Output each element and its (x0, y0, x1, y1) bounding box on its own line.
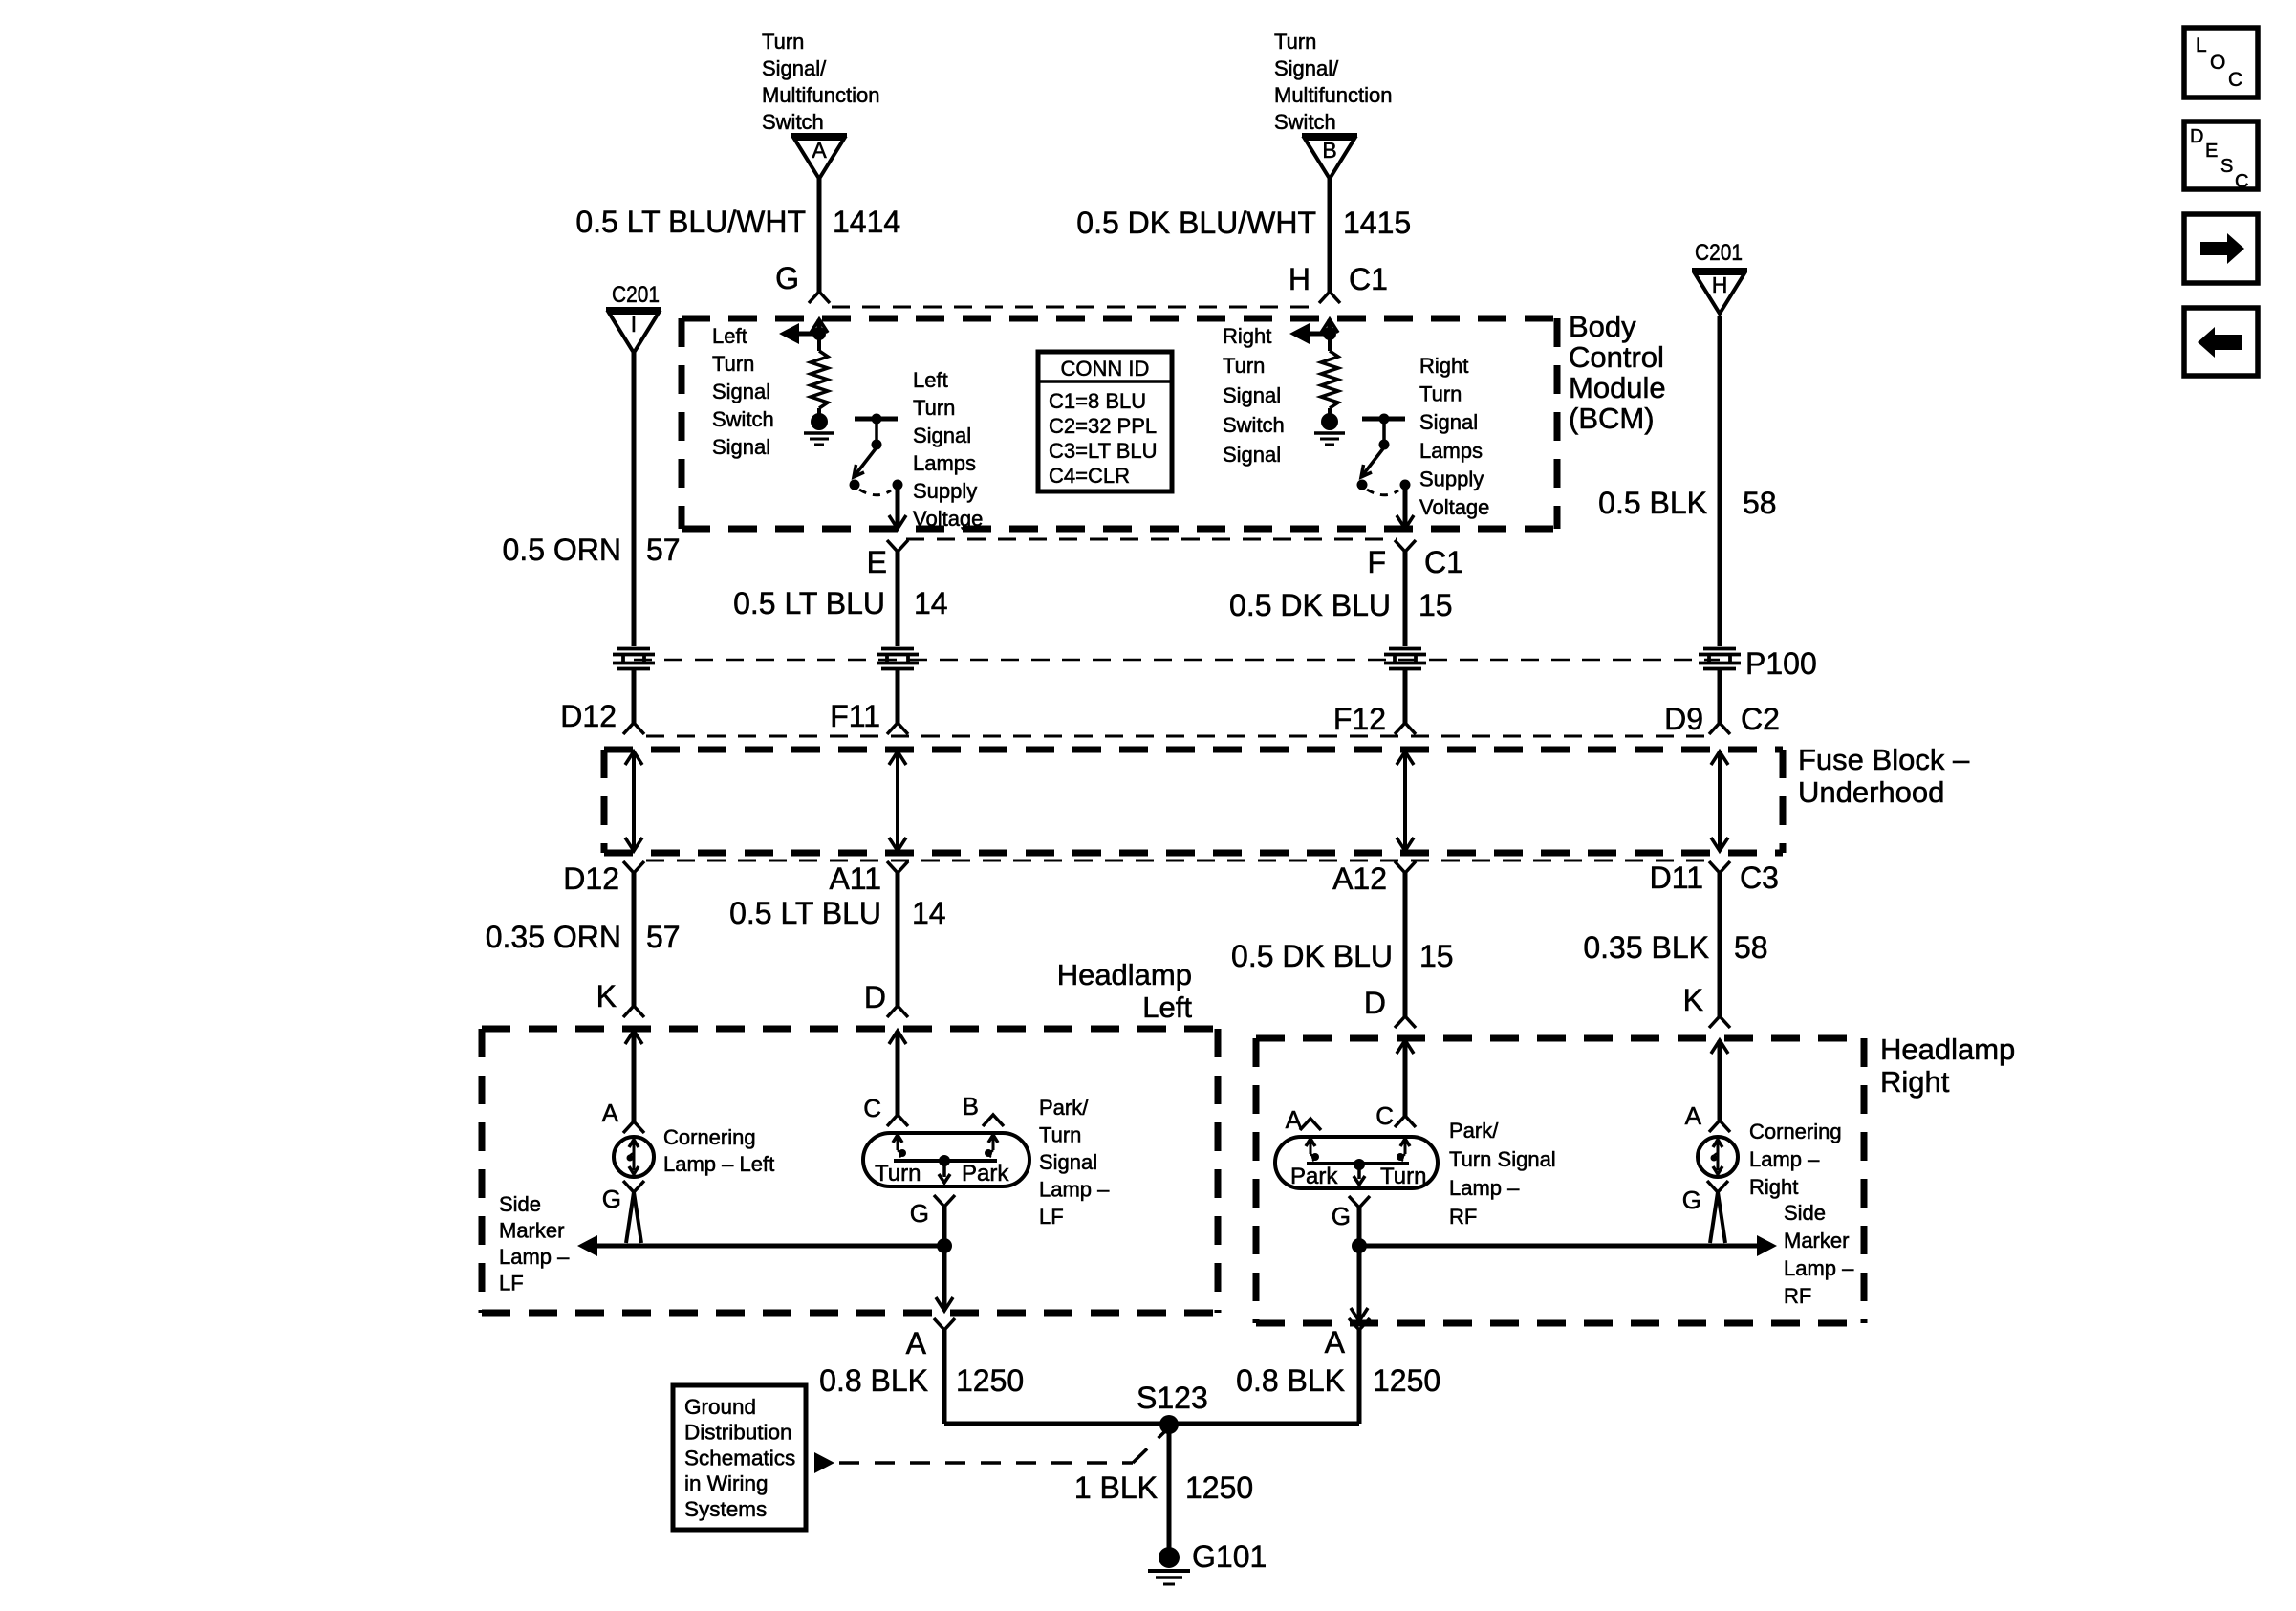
svg-text:Right: Right (1223, 324, 1271, 348)
svg-text:G: G (602, 1185, 621, 1213)
svg-text:F: F (1367, 545, 1386, 579)
svg-text:C201: C201 (1695, 240, 1743, 266)
svg-text:F12: F12 (1333, 702, 1386, 736)
svg-text:Side: Side (499, 1192, 541, 1216)
svg-text:58: 58 (1734, 930, 1768, 965)
svg-text:14: 14 (912, 896, 946, 930)
svg-text:0.5 DK BLU: 0.5 DK BLU (1229, 588, 1391, 622)
svg-text:Park/: Park/ (1449, 1119, 1499, 1143)
svg-text:0.8 BLK: 0.8 BLK (819, 1363, 928, 1398)
svg-text:Left: Left (913, 368, 948, 392)
svg-text:Lamps: Lamps (913, 451, 976, 475)
svg-text:G: G (910, 1199, 929, 1228)
svg-text:0.5 BLK: 0.5 BLK (1598, 486, 1707, 520)
svg-text:0.5 ORN: 0.5 ORN (503, 533, 621, 567)
svg-text:Right: Right (1419, 354, 1468, 378)
svg-text:0.5 LT BLU/WHT: 0.5 LT BLU/WHT (575, 205, 806, 239)
svg-text:Turn Signal: Turn Signal (1449, 1147, 1556, 1171)
svg-text:Left: Left (712, 324, 747, 348)
svg-text:LF: LF (1039, 1205, 1064, 1229)
svg-text:D: D (864, 980, 886, 1014)
svg-text:A: A (812, 138, 827, 163)
svg-text:Turn: Turn (875, 1161, 921, 1186)
svg-text:Turn: Turn (712, 352, 754, 376)
svg-text:15: 15 (1419, 939, 1454, 973)
svg-text:1250: 1250 (956, 1363, 1024, 1398)
svg-text:Systems: Systems (684, 1497, 767, 1521)
svg-text:Module: Module (1569, 371, 1666, 404)
svg-text:Switch: Switch (1274, 110, 1336, 134)
svg-text:Left: Left (1142, 991, 1192, 1024)
svg-text:G: G (1682, 1186, 1701, 1214)
svg-text:Schematics: Schematics (684, 1446, 795, 1469)
svg-text:Distribution: Distribution (684, 1421, 792, 1445)
svg-text:0.5 DK BLU: 0.5 DK BLU (1231, 939, 1393, 973)
svg-text:C4=CLR: C4=CLR (1049, 464, 1130, 488)
svg-text:58: 58 (1743, 486, 1777, 520)
svg-text:Headlamp: Headlamp (1880, 1033, 2015, 1066)
svg-text:0.5 LT BLU: 0.5 LT BLU (729, 896, 881, 930)
svg-text:0.35 ORN: 0.35 ORN (486, 920, 621, 954)
svg-text:15: 15 (1419, 588, 1453, 622)
svg-text:14: 14 (914, 586, 948, 620)
svg-text:C1: C1 (1349, 262, 1388, 296)
svg-text:C: C (863, 1094, 881, 1122)
svg-text:Fuse Block –: Fuse Block – (1798, 743, 1970, 776)
svg-text:S: S (2220, 156, 2233, 177)
svg-text:in Wiring: in Wiring (684, 1471, 769, 1495)
svg-text:Turn: Turn (1419, 382, 1462, 406)
svg-text:B: B (1322, 138, 1336, 163)
svg-text:A: A (1325, 1325, 1346, 1360)
svg-text:0.5 DK BLU/WHT: 0.5 DK BLU/WHT (1076, 206, 1316, 240)
svg-text:Right: Right (1880, 1065, 1950, 1099)
svg-text:C3: C3 (1740, 860, 1779, 895)
svg-text:Signal: Signal (1223, 443, 1281, 467)
svg-text:Switch: Switch (1223, 413, 1285, 437)
svg-text:O: O (2210, 52, 2225, 74)
svg-text:1250: 1250 (1185, 1470, 1253, 1505)
svg-text:0.35 BLK: 0.35 BLK (1583, 930, 1709, 965)
svg-text:Supply: Supply (1419, 467, 1484, 490)
svg-text:Signal: Signal (1419, 410, 1478, 434)
svg-text:D: D (2190, 126, 2203, 147)
svg-text:LF: LF (499, 1272, 524, 1295)
svg-text:P100: P100 (1745, 646, 1817, 681)
svg-text:D9: D9 (1664, 702, 1703, 736)
svg-text:Lamps: Lamps (1419, 439, 1483, 463)
svg-text:Marker: Marker (499, 1219, 564, 1243)
svg-text:C: C (2235, 171, 2248, 192)
svg-text:Signal: Signal (1223, 383, 1281, 407)
svg-text:Body: Body (1569, 310, 1636, 343)
svg-text:RF: RF (1784, 1284, 1811, 1308)
svg-text:C2: C2 (1741, 702, 1780, 736)
svg-text:Cornering: Cornering (663, 1125, 756, 1149)
svg-text:A: A (1685, 1101, 1702, 1130)
svg-text:D11: D11 (1650, 860, 1703, 895)
svg-text:K: K (1683, 983, 1703, 1017)
svg-text:1415: 1415 (1343, 206, 1411, 240)
svg-text:K: K (596, 979, 617, 1013)
svg-text:Park/: Park/ (1039, 1096, 1089, 1120)
svg-text:D12: D12 (563, 861, 619, 896)
svg-text:Side: Side (1784, 1201, 1826, 1225)
svg-text:Turn: Turn (1274, 30, 1316, 54)
svg-text:Park: Park (962, 1161, 1009, 1186)
svg-text:Switch: Switch (712, 407, 774, 431)
svg-text:G101: G101 (1192, 1539, 1267, 1574)
svg-text:Multifunction: Multifunction (762, 83, 880, 107)
svg-text:Turn: Turn (1223, 354, 1265, 378)
svg-text:1250: 1250 (1373, 1363, 1440, 1398)
svg-text:Multifunction: Multifunction (1274, 83, 1393, 107)
svg-text:57: 57 (646, 533, 681, 567)
svg-text:Signal: Signal (913, 424, 971, 447)
svg-text:F11: F11 (830, 699, 880, 733)
svg-text:CONN ID: CONN ID (1061, 357, 1150, 381)
svg-text:C2=32 PPL: C2=32 PPL (1049, 414, 1157, 438)
svg-text:Turn: Turn (762, 30, 804, 54)
svg-text:1 BLK: 1 BLK (1074, 1470, 1158, 1505)
svg-text:Lamp – Left: Lamp – Left (663, 1152, 774, 1176)
svg-text:57: 57 (646, 920, 681, 954)
svg-text:H: H (1289, 262, 1310, 296)
svg-text:B: B (963, 1092, 979, 1121)
svg-text:Lamp –: Lamp – (1784, 1256, 1854, 1280)
svg-text:C1: C1 (1424, 545, 1463, 579)
svg-text:L: L (2196, 34, 2207, 56)
svg-text:A: A (602, 1099, 619, 1127)
svg-text:Ground: Ground (684, 1395, 756, 1419)
svg-text:A: A (906, 1326, 927, 1361)
svg-text:Signal/: Signal/ (1274, 56, 1339, 80)
svg-text:S123: S123 (1137, 1381, 1208, 1415)
svg-text:D12: D12 (560, 699, 617, 733)
svg-text:E: E (867, 545, 887, 579)
svg-text:E: E (2205, 141, 2218, 162)
svg-text:A11: A11 (829, 861, 881, 896)
svg-text:C: C (2228, 69, 2242, 91)
svg-text:Signal: Signal (712, 435, 770, 459)
svg-text:Signal: Signal (1039, 1150, 1097, 1174)
svg-text:Lamp –: Lamp – (1749, 1147, 1820, 1171)
svg-text:C: C (1375, 1101, 1394, 1130)
svg-text:Voltage: Voltage (913, 507, 983, 531)
svg-text:G: G (1332, 1202, 1351, 1230)
svg-text:Turn: Turn (1039, 1123, 1081, 1147)
svg-text:Lamp –: Lamp – (499, 1245, 570, 1269)
svg-text:0.5 LT BLU: 0.5 LT BLU (733, 586, 885, 620)
svg-text:RF: RF (1449, 1205, 1477, 1229)
svg-text:1414: 1414 (833, 205, 900, 239)
svg-text:Marker: Marker (1784, 1229, 1849, 1252)
svg-text:C3=LT BLU: C3=LT BLU (1049, 439, 1158, 463)
svg-text:Voltage: Voltage (1419, 495, 1489, 519)
svg-text:Turn: Turn (1380, 1164, 1426, 1189)
svg-text:Signal/: Signal/ (762, 56, 827, 80)
svg-text:D: D (1364, 986, 1386, 1020)
svg-text:C201: C201 (612, 282, 660, 308)
svg-text:Signal: Signal (712, 380, 770, 403)
svg-text:0.8 BLK: 0.8 BLK (1236, 1363, 1345, 1398)
svg-text:A12: A12 (1332, 861, 1387, 896)
svg-text:Turn: Turn (913, 396, 955, 420)
svg-text:H: H (1712, 272, 1728, 297)
svg-text:Park: Park (1290, 1164, 1338, 1189)
svg-text:Switch: Switch (762, 110, 824, 134)
svg-text:Underhood: Underhood (1798, 775, 1944, 809)
svg-text:Headlamp: Headlamp (1057, 958, 1192, 991)
svg-text:Control: Control (1569, 340, 1664, 374)
svg-text:G: G (775, 261, 799, 295)
svg-text:Lamp –: Lamp – (1039, 1178, 1110, 1202)
svg-text:C1=8 BLU: C1=8 BLU (1049, 389, 1146, 413)
svg-text:Right: Right (1749, 1175, 1798, 1199)
svg-text:Lamp –: Lamp – (1449, 1176, 1520, 1200)
svg-text:Supply: Supply (913, 479, 977, 503)
svg-text:I: I (631, 312, 637, 337)
svg-text:Cornering: Cornering (1749, 1120, 1842, 1143)
svg-text:(BCM): (BCM) (1569, 402, 1655, 435)
